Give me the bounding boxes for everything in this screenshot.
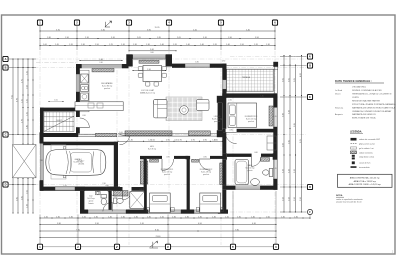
bathroom radiator <box>261 158 270 162</box>
svg-text:1.20: 1.20 <box>148 140 151 142</box>
wardrobe1 <box>140 161 148 184</box>
grid bubbles bottom <box>37 244 278 249</box>
svg-text:1.30: 1.30 <box>198 216 202 218</box>
svg-text:7.80: 7.80 <box>235 229 239 231</box>
hall-bath2 wall <box>118 187 144 191</box>
svg-text:1.30: 1.30 <box>294 216 298 218</box>
svg-text:5.40: 5.40 <box>246 29 250 31</box>
svg-text:1.90: 1.90 <box>147 69 151 71</box>
door bedroom2 <box>199 159 210 170</box>
svg-text:1.50: 1.50 <box>26 85 28 89</box>
bay window walls <box>126 54 172 66</box>
svg-text:0.90: 0.90 <box>229 130 232 132</box>
svg-text:CERAMICA, FUNDATII DIN BETON A: CERAMICA, FUNDATII DIN BETON ARMAT <box>352 110 392 113</box>
svg-text:1.20: 1.20 <box>213 44 217 46</box>
top wall living <box>172 64 226 68</box>
bed2 nightstands <box>196 208 223 212</box>
door garage-hall <box>107 187 116 196</box>
door bath2 <box>123 191 132 200</box>
svg-text:MASA S=10.2 mp: MASA S=10.2 mp <box>140 92 155 95</box>
svg-text:STRUCTURA: ZIDARIE PORTANTA CA: STRUCTURA: ZIDARIE PORTANTA CARAMIDA <box>352 103 396 106</box>
svg-text:1.40: 1.40 <box>260 96 263 98</box>
svg-text:1.20: 1.20 <box>69 44 73 46</box>
svg-text:1.25: 1.25 <box>26 71 28 75</box>
svg-text:3.70: 3.70 <box>56 29 60 31</box>
svg-text:1.40: 1.40 <box>281 216 285 218</box>
svg-text:1.60: 1.60 <box>266 216 270 218</box>
bathroom north wall <box>222 153 277 159</box>
svg-text:1.25: 1.25 <box>21 99 23 103</box>
svg-text:1.40: 1.40 <box>108 216 112 218</box>
bedroom3 south wall <box>222 129 277 133</box>
terrace railing <box>227 62 278 94</box>
bath1 sink <box>96 191 101 195</box>
svg-text:1.30: 1.30 <box>56 216 60 218</box>
svg-text:2.70: 2.70 <box>21 119 23 123</box>
svg-text:1.20: 1.20 <box>254 44 258 46</box>
svg-text:1.20: 1.20 <box>63 185 66 187</box>
svg-text:1.30: 1.30 <box>134 216 138 218</box>
svg-text:3.05: 3.05 <box>294 78 296 82</box>
svg-text:S=18.6 mp: S=18.6 mp <box>73 162 82 164</box>
svg-text:1.80: 1.80 <box>195 62 198 64</box>
svg-text:1.20: 1.20 <box>173 44 177 46</box>
garage interior dim <box>102 183 105 185</box>
svg-text:0.90: 0.90 <box>203 140 207 142</box>
svg-text:NOTA:: NOTA: <box>336 194 343 197</box>
svg-text:1.30: 1.30 <box>266 44 270 46</box>
svg-text:0.90: 0.90 <box>203 157 206 159</box>
porch outline <box>36 63 76 103</box>
bottom scale symbol <box>150 241 159 248</box>
bedroom2 radiator <box>192 159 199 162</box>
svg-text:1.10: 1.10 <box>121 44 125 46</box>
svg-text:La Nord: La Nord <box>335 90 342 92</box>
svg-text:1.40: 1.40 <box>226 44 230 46</box>
svg-text:0.80: 0.80 <box>139 189 142 191</box>
svg-text:parchet: parchet <box>248 120 255 123</box>
svg-text:5.30: 5.30 <box>101 29 105 31</box>
svg-text:1.80: 1.80 <box>47 37 51 39</box>
bed3 <box>228 103 257 127</box>
svg-text:2.15: 2.15 <box>228 100 231 102</box>
svg-text:1.25: 1.25 <box>26 112 28 116</box>
svg-text:0.90: 0.90 <box>222 61 225 63</box>
door bedroom3 <box>225 132 236 143</box>
kitchen bar counter <box>75 102 123 111</box>
svg-text:1.20: 1.20 <box>273 168 276 170</box>
bedroom1 west wall <box>144 159 147 213</box>
corridor interior chain <box>117 140 222 142</box>
svg-text:1.30: 1.30 <box>172 216 176 218</box>
top dimension chains <box>39 26 275 61</box>
svg-text:1.90: 1.90 <box>228 37 232 39</box>
svg-text:3.60: 3.60 <box>150 49 154 51</box>
svg-text:3.20: 3.20 <box>294 169 296 173</box>
svg-text:15.35: 15.35 <box>154 27 160 29</box>
bed2 <box>200 193 221 213</box>
stairs block walls <box>40 108 79 135</box>
svg-text:BAIE: BAIE <box>248 164 253 167</box>
svg-text:1.85: 1.85 <box>157 37 161 39</box>
bedroom3 north wall <box>222 93 277 97</box>
svg-text:1.30: 1.30 <box>185 216 189 218</box>
svg-text:2.50: 2.50 <box>300 197 302 201</box>
svg-text:1.20: 1.20 <box>245 184 248 186</box>
armchair <box>197 100 210 111</box>
svg-text:1.40: 1.40 <box>212 216 216 218</box>
stairs treads <box>44 112 74 131</box>
garage gate swing zone <box>51 145 66 179</box>
legend title <box>350 130 363 133</box>
svg-text:2.65: 2.65 <box>288 140 290 144</box>
svg-text:CURTE: CURTE <box>352 97 360 99</box>
garage south wall <box>40 187 120 191</box>
right dimension chains <box>280 55 307 213</box>
svg-text:cotele si suprafetele mentiona: cotele si suprafetele mentionate <box>336 198 363 201</box>
door bath1 <box>103 202 112 211</box>
svg-text:0.80: 0.80 <box>254 152 257 154</box>
svg-text:2.85: 2.85 <box>21 196 23 200</box>
svg-text:zidarie de caramida GVP: zidarie de caramida GVP <box>359 138 381 141</box>
svg-text:A: A <box>5 57 7 61</box>
svg-text:GARAJ: GARAJ <box>75 158 82 161</box>
grid bubbles top <box>37 20 277 25</box>
svg-text:parchet: parchet <box>164 173 171 176</box>
svg-text:2.40: 2.40 <box>99 59 103 61</box>
svg-text:2.75: 2.75 <box>21 79 23 83</box>
svg-text:1.45: 1.45 <box>55 44 59 46</box>
svg-text:1.50: 1.50 <box>240 44 244 46</box>
top wall kitchen <box>76 64 129 68</box>
svg-text:parchet: parchet <box>214 120 221 123</box>
svg-text:1.90: 1.90 <box>65 37 69 39</box>
kitchen door from stairs hall <box>80 118 90 128</box>
legend items <box>351 138 381 169</box>
bath1 text <box>87 196 94 206</box>
svg-text:1.20: 1.20 <box>212 140 215 142</box>
svg-text:1.50: 1.50 <box>95 44 99 46</box>
svg-text:B: B <box>5 66 7 70</box>
svg-text:REGIM DE INALTIME PARTER: REGIM DE INALTIME PARTER <box>352 99 381 102</box>
south wall bedrooms <box>80 210 228 214</box>
svg-text:2.10: 2.10 <box>85 37 89 39</box>
svg-text:parchet: parchet <box>104 87 111 90</box>
svg-text:2.50: 2.50 <box>288 197 290 201</box>
svg-text:SARPANTA DIN LEMN SI INVELITOA: SARPANTA DIN LEMN SI INVELITOARE TIGLA <box>352 106 396 109</box>
living carpet <box>166 97 202 121</box>
svg-text:Vecini: Vecini <box>335 94 341 96</box>
svg-text:0.80: 0.80 <box>105 185 108 187</box>
svg-text:0.70: 0.70 <box>178 140 182 142</box>
bath2 shower <box>130 192 145 209</box>
svg-text:3.10: 3.10 <box>203 37 207 39</box>
svg-text:DRUMUL COMUNAL DE ACCES: DRUMUL COMUNAL DE ACCES <box>352 89 382 92</box>
dining bay radiator <box>139 60 159 63</box>
kitchen west wall <box>76 64 80 134</box>
svg-text:stalpi beton armat: stalpi beton armat <box>359 156 375 159</box>
bedroom1 radiator <box>150 159 159 162</box>
svg-text:3.90: 3.90 <box>282 113 284 117</box>
car in garage <box>46 147 106 178</box>
svg-text:2.50: 2.50 <box>282 197 284 201</box>
svg-text:2.00: 2.00 <box>282 143 284 147</box>
living radiator 3 <box>189 131 211 136</box>
svg-text:3.90: 3.90 <box>95 223 99 225</box>
garage ramp <box>13 145 37 178</box>
coffee table <box>180 106 189 115</box>
svg-text:1.30: 1.30 <box>147 216 151 218</box>
svg-text:7.70: 7.70 <box>76 229 80 231</box>
kitchen window radiator <box>92 69 114 72</box>
svg-text:termoizolatie: termoizolatie <box>359 166 370 169</box>
svg-text:atasate fara tencuieli de 15 c: atasate fara tencuieli de 15 cm <box>336 201 362 204</box>
bedroom3 radiator <box>269 106 273 126</box>
svg-text:1.30: 1.30 <box>81 44 85 46</box>
svg-text:1.25: 1.25 <box>26 99 28 103</box>
svg-text:D: D <box>5 183 7 187</box>
bath1 walls <box>80 191 112 210</box>
svg-text:SARPANTA DIN LEMN CU: SARPANTA DIN LEMN CU <box>352 113 376 116</box>
svg-text:1.40: 1.40 <box>200 44 204 46</box>
svg-text:3.05: 3.05 <box>288 78 290 82</box>
door bathroom <box>251 157 261 167</box>
svg-text:1.30: 1.30 <box>26 204 28 208</box>
svg-text:UTILIZATORUL: UTILIZATORUL <box>352 86 367 89</box>
west wall of right wing <box>222 98 226 214</box>
svg-text:C: C <box>5 133 7 137</box>
east exterior wall <box>273 93 277 189</box>
svg-text:TEREN AGRICOL, ZONA CU LOCUINT: TEREN AGRICOL, ZONA CU LOCUINTE SI <box>352 93 392 96</box>
svg-text:2.85: 2.85 <box>16 197 18 201</box>
svg-text:ARIA CONSTRUITA = 145,55 mp: ARIA CONSTRUITA = 145,55 mp <box>350 177 380 180</box>
axis grid lines <box>9 26 306 245</box>
svg-text:6.50: 6.50 <box>198 223 202 225</box>
svg-text:1.45: 1.45 <box>26 125 28 129</box>
svg-text:3.60: 3.60 <box>150 52 153 54</box>
svg-text:3.10: 3.10 <box>111 37 115 39</box>
svg-text:INVELITOARE DIN TIGLA: INVELITOARE DIN TIGLA <box>352 117 376 120</box>
dining interior dim <box>132 69 166 71</box>
nota block <box>336 194 363 203</box>
svg-text:1.30: 1.30 <box>121 216 125 218</box>
svg-text:1.30: 1.30 <box>133 44 137 46</box>
svg-text:5.20: 5.20 <box>193 29 197 31</box>
svg-text:1.20: 1.20 <box>225 216 229 218</box>
svg-text:ARIA CONSTR. DESF. = 145,20 mp: ARIA CONSTR. DESF. = 145,20 mp <box>349 183 382 186</box>
svg-text:DATE TEHNICE GENERALE :: DATE TEHNICE GENERALE : <box>335 79 372 83</box>
svg-text:1.25: 1.25 <box>109 44 113 46</box>
hall door to kitchen <box>120 135 130 145</box>
bath2 WC <box>114 198 124 204</box>
svg-text:LEGENDA:: LEGENDA: <box>350 130 362 133</box>
fireplace wall unit <box>217 96 223 137</box>
svg-text:1.00: 1.00 <box>119 132 122 134</box>
svg-text:17x18/25: 17x18/25 <box>56 120 63 122</box>
bottom dimension chains <box>39 191 310 247</box>
svg-text:1.40: 1.40 <box>160 44 164 46</box>
svg-text:faianta: faianta <box>88 202 93 205</box>
svg-text:2.05: 2.05 <box>137 37 141 39</box>
garage west wall + door <box>40 132 44 190</box>
svg-text:1.55: 1.55 <box>26 190 28 194</box>
svg-text:A': A' <box>309 55 312 59</box>
bathroom sink <box>251 179 260 186</box>
sofa <box>154 100 168 118</box>
dressing closet <box>267 136 277 150</box>
svg-text:2.40: 2.40 <box>99 62 102 64</box>
svg-text:2.40: 2.40 <box>40 160 43 162</box>
north arrow <box>105 21 112 27</box>
terrace tiled floor <box>227 69 274 91</box>
svg-text:5.10: 5.10 <box>140 223 144 225</box>
svg-text:8.10: 8.10 <box>155 229 159 231</box>
svg-text:LOC DE LUAT: LOC DE LUAT <box>141 89 155 92</box>
svg-text:6.70: 6.70 <box>16 98 18 102</box>
svg-text:3.90: 3.90 <box>147 29 151 31</box>
svg-text:3.05: 3.05 <box>282 78 284 82</box>
svg-text:3.20: 3.20 <box>288 169 290 173</box>
garage north wall <box>42 142 116 146</box>
svg-text:Structura: Structura <box>335 106 344 109</box>
svg-text:1.30: 1.30 <box>237 216 241 218</box>
wall between bedrooms <box>187 159 190 213</box>
svg-text:0.90: 0.90 <box>166 157 169 159</box>
hall long radiator <box>125 131 172 136</box>
svg-text:23.60: 23.60 <box>156 236 161 238</box>
svg-text:1.20: 1.20 <box>82 216 86 218</box>
bedrooms north wall <box>140 156 223 159</box>
svg-text:D: D <box>309 185 311 189</box>
svg-text:3.20: 3.20 <box>282 169 284 173</box>
svg-text:0.90: 0.90 <box>166 140 170 142</box>
svg-text:3.30: 3.30 <box>288 110 290 114</box>
dining table and chairs <box>138 66 166 87</box>
svg-text:9.15: 9.15 <box>300 139 302 143</box>
svg-text:1.20: 1.20 <box>273 116 276 118</box>
svg-text:1.40: 1.40 <box>129 140 133 142</box>
area box <box>338 174 393 187</box>
svg-text:1.40: 1.40 <box>251 216 255 218</box>
svg-text:3.80: 3.80 <box>57 223 61 225</box>
svg-text:3.20: 3.20 <box>174 140 177 142</box>
bath2 radiator <box>114 191 129 196</box>
svg-text:BUCATARIE: BUCATARIE <box>101 82 113 85</box>
svg-text:S=9.8 mp: S=9.8 mp <box>148 149 156 151</box>
title date tehnice generale <box>335 79 384 83</box>
svg-text:ARIA UTILA = 118,82 mp: ARIA UTILA = 118,82 mp <box>354 180 377 183</box>
bath1 WC <box>101 195 107 205</box>
svg-text:3.50: 3.50 <box>255 37 259 39</box>
svg-text:Acoperis: Acoperis <box>335 113 343 116</box>
svg-text:1.20: 1.20 <box>160 216 164 218</box>
svg-text:B: B <box>309 64 311 68</box>
room labels <box>73 76 258 176</box>
small opening dimensions <box>40 52 277 191</box>
svg-text:ghips-carton a-mat: ghips-carton a-mat <box>359 143 375 146</box>
bathroom WC <box>263 169 273 177</box>
svg-text:7.55: 7.55 <box>11 95 13 99</box>
svg-text:cosuri de fum: cosuri de fum <box>359 162 371 165</box>
svg-text:4.30: 4.30 <box>252 223 256 225</box>
svg-text:parchet: parchet <box>203 173 210 176</box>
axis circle marker right <box>307 209 312 214</box>
svg-text:5.95: 5.95 <box>294 123 296 127</box>
svg-text:1.00: 1.00 <box>43 44 47 46</box>
svg-text:1.30: 1.30 <box>94 216 98 218</box>
svg-text:zidarie existenta: zidarie existenta <box>359 151 374 154</box>
svg-text:1.30: 1.30 <box>146 44 150 46</box>
svg-text:E: E <box>309 95 311 99</box>
grid bubbles left <box>3 56 8 187</box>
svg-text:0.70: 0.70 <box>191 140 195 142</box>
svg-text:2.05: 2.05 <box>177 37 181 39</box>
technical data text <box>335 86 396 120</box>
bathtub <box>235 160 249 185</box>
svg-text:1.20: 1.20 <box>44 216 48 218</box>
grid bubbles right <box>307 54 312 190</box>
living east wall <box>222 64 226 98</box>
svg-text:1.05: 1.05 <box>54 100 57 102</box>
svg-text:1.40: 1.40 <box>186 44 190 46</box>
kitchen counter and appliances <box>80 70 89 112</box>
svg-text:4.00: 4.00 <box>300 73 302 77</box>
svg-text:1.30: 1.30 <box>69 216 73 218</box>
door bedroom1 <box>162 159 174 171</box>
hall radiator 1 <box>95 133 116 136</box>
left dimension chains <box>9 58 36 213</box>
svg-text:TERASA: TERASA <box>242 76 251 79</box>
bed1 nightstands <box>147 208 174 212</box>
page number <box>392 250 394 254</box>
bed1 <box>150 193 171 213</box>
svg-text:gresie: gresie <box>247 169 252 172</box>
svg-text:gol in zidarie / usi: gol in zidarie / usi <box>359 147 374 150</box>
svg-text:1.00: 1.00 <box>151 140 155 142</box>
hall south wall left <box>40 133 95 137</box>
wardrobe2 <box>220 163 226 185</box>
svg-text:0.90: 0.90 <box>82 115 85 117</box>
right wing south wall <box>222 186 277 190</box>
hall south wall right <box>118 134 222 136</box>
svg-text:2.50: 2.50 <box>294 197 296 201</box>
garage east wall <box>114 142 118 187</box>
